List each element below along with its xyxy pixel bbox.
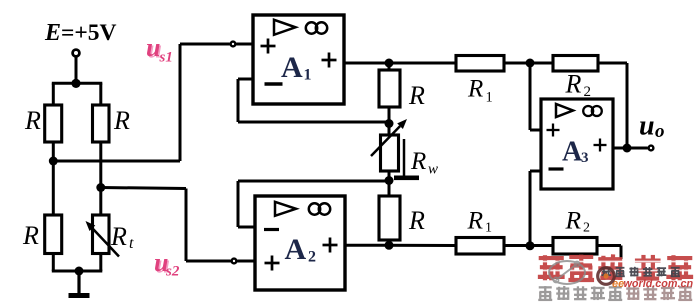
svg-text:R: R xyxy=(410,148,426,175)
svg-text:A: A xyxy=(285,233,307,266)
svg-text:R: R xyxy=(24,106,41,135)
svg-text:E: E xyxy=(44,20,61,46)
svg-text:R: R xyxy=(22,221,39,250)
svg-text:R: R xyxy=(113,106,130,135)
svg-text:A: A xyxy=(562,137,583,168)
svg-text:u: u xyxy=(639,111,655,142)
svg-text:1: 1 xyxy=(304,67,312,84)
svg-text:2: 2 xyxy=(583,221,590,236)
svg-text:R: R xyxy=(565,70,582,99)
svg-text:A: A xyxy=(281,51,303,84)
svg-text:s1: s1 xyxy=(159,50,173,66)
svg-text:world.com.cn: world.com.cn xyxy=(624,278,694,290)
svg-text:s2: s2 xyxy=(165,264,180,280)
svg-text:o: o xyxy=(655,121,665,142)
svg-text:R: R xyxy=(408,81,425,110)
svg-text:R: R xyxy=(467,206,484,235)
svg-text:t: t xyxy=(129,235,134,252)
svg-text:w: w xyxy=(428,162,438,178)
svg-text:1: 1 xyxy=(486,90,493,106)
svg-text:3: 3 xyxy=(581,150,589,166)
svg-text:R: R xyxy=(467,76,483,103)
svg-text:2: 2 xyxy=(308,249,316,266)
svg-text:R: R xyxy=(408,206,425,235)
svg-text:R: R xyxy=(565,206,582,235)
svg-text:u: u xyxy=(146,33,160,62)
svg-text:1: 1 xyxy=(485,221,492,236)
svg-text:=+5V: =+5V xyxy=(61,20,117,46)
svg-text:R: R xyxy=(110,222,127,251)
